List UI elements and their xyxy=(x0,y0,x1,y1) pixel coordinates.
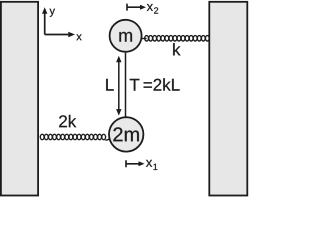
dimension arrow L xyxy=(118,60,120,112)
displacement arrow x2 xyxy=(127,4,142,11)
label 2m xyxy=(113,127,138,141)
spring k xyxy=(142,38,147,40)
y-axis xyxy=(44,12,46,35)
string T xyxy=(125,53,127,118)
right wall xyxy=(209,2,247,196)
label 2k xyxy=(59,115,76,127)
label L xyxy=(106,79,114,91)
label x2 xyxy=(147,4,153,11)
mass 2m xyxy=(109,117,143,151)
label m xyxy=(119,32,132,42)
label T = 2kL xyxy=(130,79,140,91)
x-axis xyxy=(45,34,69,36)
x-axis label xyxy=(76,34,81,40)
displacement arrow x1 xyxy=(126,160,140,167)
label x1 xyxy=(146,160,152,167)
y-axis label xyxy=(50,9,55,17)
left wall xyxy=(1,2,38,196)
spring 2k xyxy=(40,134,44,139)
label k xyxy=(173,43,180,55)
mass m xyxy=(110,20,142,52)
